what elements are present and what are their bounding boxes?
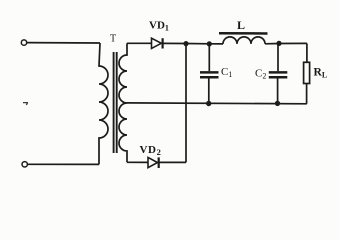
svg-text:L: L	[237, 18, 245, 32]
svg-text:T: T	[110, 34, 116, 45]
